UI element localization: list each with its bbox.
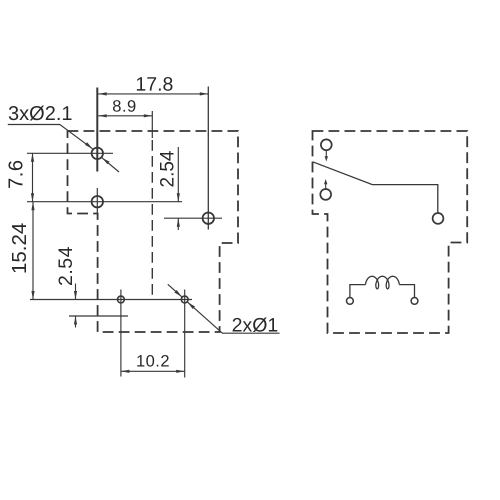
hole H1 horizontal crosshair xyxy=(27,152,113,154)
dimension 8.9 right arrow xyxy=(144,114,153,117)
hole H2 vertical crosshair xyxy=(96,188,98,213)
2.54 (left) lower extension line at y=316 xyxy=(69,315,128,317)
dimension 2.54 (left) lower arrow (points up) xyxy=(74,316,77,325)
dimension 7.6 bottom arrow xyxy=(31,193,34,202)
hole H2 xyxy=(92,196,103,207)
dimension 8.9 line xyxy=(98,115,152,117)
relay schematic outline (dashed) xyxy=(313,131,468,333)
svg-text:8.9: 8.9 xyxy=(112,98,136,116)
dimension 2.54 (left) upper arrow (points down) xyxy=(74,291,77,300)
leader line for 3xO2.1 label (upper part) xyxy=(8,125,93,149)
svg-text:7.6: 7.6 xyxy=(6,160,28,189)
dimension 17.8 line xyxy=(98,93,208,95)
coil left lead wire xyxy=(350,285,366,298)
dimension 17.8 right arrow xyxy=(200,92,209,95)
hole H1 (3xO2.1 top-left) xyxy=(92,148,103,159)
contact pin NC circle xyxy=(321,139,332,150)
leader line for 3xO2.1 label (lower part) xyxy=(102,158,119,172)
leader 2xO1 arrow upper (points at hole H5) xyxy=(174,290,182,297)
leader 3xO2.1 arrow lower (points back at hole H1) xyxy=(102,158,110,165)
svg-text:17.8: 17.8 xyxy=(135,74,173,96)
dimension 15.24 line xyxy=(32,202,34,300)
dimension 2.54 (middle) lower leg xyxy=(177,218,179,230)
dimension 2.54 (middle) lower arrow (points up) xyxy=(177,218,180,227)
switch blade wire xyxy=(313,162,438,213)
hole H3 (right) xyxy=(203,213,214,224)
H4 vertical crosshair / extension of 10.2 xyxy=(120,290,122,377)
relay body outline (bottom view, dashed) xyxy=(68,131,239,332)
H5 vertical crosshair / extension of 10.2 xyxy=(184,290,186,378)
svg-text:2xØ1: 2xØ1 xyxy=(232,314,279,336)
8.9 right extension line stub xyxy=(151,111,153,138)
dimension 15.24 top arrow xyxy=(31,202,34,211)
dimension 10.2 line xyxy=(121,370,185,372)
coil terminal circle left xyxy=(347,298,354,305)
hole H3 vertical crosshair / extension of 17.8 xyxy=(207,87,209,230)
leader 3xO2.1 arrow upper (points at hole H1) xyxy=(85,142,93,149)
dimension 10.2 right arrow xyxy=(176,370,185,373)
NC arrow head xyxy=(325,156,328,161)
common pin circle xyxy=(433,213,444,224)
holes row line (extension for 15.24 / 2.54) xyxy=(30,299,192,301)
leader line for 2xO1 label (upper part) xyxy=(168,284,182,297)
small hole H5 (2xO1 right) xyxy=(181,296,188,303)
dimension 15.24 bottom arrow xyxy=(31,291,34,300)
leader line for 2xO1 label (lower part) xyxy=(188,302,280,333)
NO arrow head xyxy=(324,179,327,184)
leader 2xO1 arrow lower (points back at hole H5) xyxy=(188,302,196,309)
svg-text:2.54: 2.54 xyxy=(158,150,179,187)
coil terminal circle right xyxy=(411,298,418,305)
dimension 17.8 left arrow xyxy=(98,92,107,95)
dimension 10.2 left arrow xyxy=(121,370,129,373)
dimension 2.54 (middle) upper arrow (points down) xyxy=(177,193,180,202)
svg-text:15.24: 15.24 xyxy=(8,223,31,274)
hole H1 vertical crosshair / extension of 17.8 + 8.9 xyxy=(96,88,98,172)
dimension 2.54 (left) lower leg xyxy=(75,316,77,328)
hole H2 horizontal crosshair (extension for 7.6 / 2.54) xyxy=(27,201,182,203)
dimension 2.54 (left) upper leg xyxy=(75,284,77,300)
coil right lead wire xyxy=(399,285,414,298)
hole H3 horizontal crosshair (extension for 2.54 mid) xyxy=(164,217,222,219)
coil winding L1 xyxy=(366,276,400,289)
svg-text:3xØ2.1: 3xØ2.1 xyxy=(8,103,72,125)
svg-text:2.54: 2.54 xyxy=(55,246,77,286)
center line (dashed vertical at x=152.3) xyxy=(151,140,153,300)
dimension 2.54 (middle) upper leg xyxy=(177,147,179,202)
NO arrow shaft (up) xyxy=(325,183,327,189)
NC arrow shaft (down) xyxy=(325,150,327,157)
dimension 7.6 top arrow xyxy=(31,153,34,162)
dimension 7.6 line xyxy=(32,153,34,201)
svg-text:10.2: 10.2 xyxy=(136,352,170,370)
contact pin NO circle xyxy=(320,189,331,200)
small hole H4 (2xO1 left) xyxy=(118,296,125,303)
dimension 8.9 left arrow xyxy=(98,114,107,117)
